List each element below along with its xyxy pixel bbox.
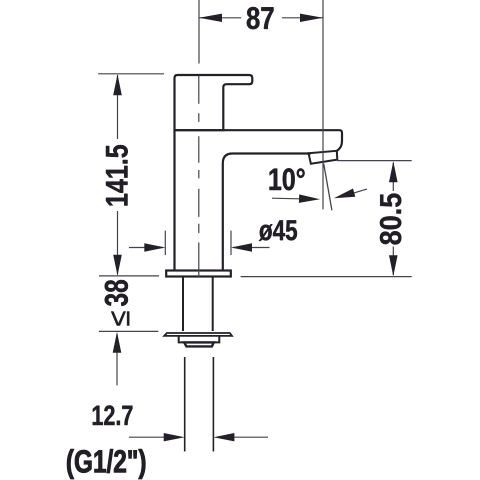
extension line at centerline for 87 xyxy=(198,0,200,64)
lower flange xyxy=(164,333,232,336)
label 10 degrees xyxy=(270,168,305,190)
aerator (spout tip, tilted) xyxy=(309,151,338,164)
faucet body left edge xyxy=(173,130,175,270)
faucet body top edge and spout xyxy=(175,130,343,151)
dim line 141.5 lower stem xyxy=(117,211,119,275)
label G1/2 thread xyxy=(67,449,145,479)
dim line 12.7 left tail xyxy=(129,436,167,438)
label 141.5 (rotated) xyxy=(106,145,128,206)
arrowhead 12.7 left xyxy=(164,433,185,441)
dim line 80.5 lower stem xyxy=(392,247,394,276)
water stream line at 10 deg xyxy=(324,164,332,211)
arrowhead 141.5 top xyxy=(113,74,122,95)
dim line 80.5 upper stem xyxy=(392,163,394,192)
centerline (dash-dot) xyxy=(198,76,200,277)
tick line top of 141.5 xyxy=(98,73,164,75)
supply pipe left line xyxy=(184,357,186,452)
label 12.7 xyxy=(93,405,133,425)
shank right line xyxy=(212,277,214,332)
nut middle block xyxy=(179,336,220,343)
dim line 87 left segment xyxy=(199,17,241,19)
arrowhead 10 deg left xyxy=(299,194,320,203)
extension line right of o45 xyxy=(230,231,232,255)
base plate xyxy=(166,271,231,277)
dim 10 deg left tail xyxy=(272,198,314,199)
extension line at spout outlet for 87 xyxy=(322,0,324,209)
faucet spout underside and body right edge xyxy=(223,154,311,271)
arrowhead 38 bottom outside xyxy=(113,332,122,353)
supply pipe right line xyxy=(212,357,214,452)
dim line 141.5 upper stem xyxy=(117,75,119,139)
dim 38 outside arrow stem xyxy=(116,334,118,385)
label 38 (rotated) xyxy=(105,280,128,306)
arrowhead 87 left xyxy=(199,14,222,22)
dim 10 deg right tail xyxy=(351,189,367,194)
arrowhead o45 left xyxy=(144,243,165,251)
faucet lever handle xyxy=(175,75,253,130)
dim line o45 left tail xyxy=(129,247,163,249)
extension line left of o45 xyxy=(164,231,166,255)
nut bottom rim xyxy=(184,342,214,346)
arrowhead 10 deg right xyxy=(334,189,355,199)
label diameter 45 xyxy=(259,220,297,241)
label 80.5 (rotated) xyxy=(380,194,401,245)
arrowhead 12.7 right xyxy=(213,433,234,441)
shank left line xyxy=(182,277,184,332)
tick line at mounting deck left xyxy=(99,275,159,277)
tick line bottom of 38 xyxy=(99,330,158,332)
deck level line right for 80.5 xyxy=(241,276,412,278)
outlet level line for 80.5 xyxy=(337,160,412,162)
arrowhead 87 right xyxy=(300,14,323,22)
label 87 xyxy=(247,7,274,29)
arrowhead 80.5 bottom xyxy=(389,255,398,276)
label less-equal (rotated) xyxy=(111,312,129,326)
dim line 12.7 right tail xyxy=(232,436,268,438)
arrowhead 141.5 bottom xyxy=(113,255,122,276)
dim line 87 right segment xyxy=(282,17,323,19)
arrowhead o45 right xyxy=(231,243,252,251)
arrowhead 80.5 top xyxy=(389,161,398,182)
dim line o45 right tail xyxy=(233,247,270,249)
